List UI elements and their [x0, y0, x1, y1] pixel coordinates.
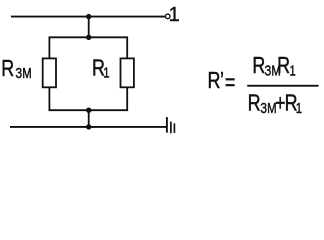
junction dot (parallel bottom bus)	[86, 108, 91, 113]
wire: parallel top bus with drops to both resistors	[49, 37, 127, 58]
svg-text:R: R	[208, 68, 221, 94]
ground symbol (earth, pointing right)	[167, 117, 175, 133]
svg-text:=: =	[225, 70, 235, 96]
svg-text:ЗМ: ЗМ	[15, 65, 31, 82]
wire: top rail	[11, 16, 165, 18]
formula numerator: R_зм R_1	[252, 53, 295, 79]
wire: stub from top rail down to parallel bus	[88, 17, 90, 38]
svg-text:1: 1	[169, 4, 180, 26]
junction dot (parallel top bus)	[86, 35, 91, 40]
formula fraction bar	[247, 85, 318, 87]
wire: parallel bottom bus with risers from both resistors	[49, 87, 127, 110]
resistor R1 body	[121, 58, 134, 87]
junction dot (bottom rail)	[86, 124, 91, 129]
svg-text:1: 1	[103, 64, 109, 81]
formula denominator: R_зм + R_1	[248, 91, 302, 117]
wire: stub from parallel bus down to bottom rail	[88, 110, 90, 127]
resistor R_зм body	[43, 58, 56, 87]
formula: R' =	[208, 68, 236, 96]
svg-text:1: 1	[296, 100, 302, 117]
svg-text:R: R	[1, 56, 14, 82]
svg-text:R: R	[248, 91, 261, 117]
junction dot (top rail / branch tap)	[86, 14, 91, 19]
label R_зм (left resistor)	[1, 56, 31, 82]
svg-text:ЗМ: ЗМ	[260, 100, 276, 117]
svg-text:1: 1	[290, 62, 296, 79]
svg-text:R: R	[277, 53, 290, 79]
wire: bottom rail	[10, 126, 166, 128]
terminal 1 (open circle)	[165, 14, 170, 19]
svg-text:R: R	[252, 53, 265, 79]
svg-text:’: ’	[220, 68, 224, 94]
label R1 (right resistor)	[92, 55, 109, 81]
